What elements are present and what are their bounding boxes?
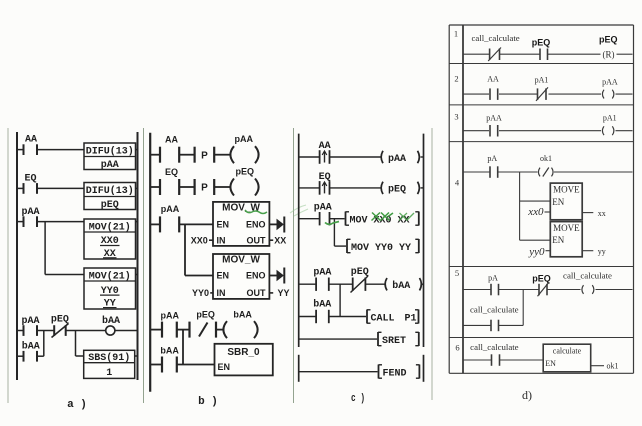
- svg-text:5: 5: [455, 268, 459, 278]
- svg-text:c ): c ): [351, 393, 365, 405]
- network separator 2-3: [449, 104, 633, 106]
- wire branch d rung4 to MOVE blocks: [520, 172, 551, 240]
- network separator 3-4: [449, 141, 633, 143]
- svg-text:XX: XX: [274, 235, 286, 245]
- pin xx output (d): [582, 209, 606, 218]
- pin yy output (d): [582, 247, 606, 256]
- wire rung2 b: [151, 186, 230, 188]
- wire branch b rung3 to second MOV_W: [185, 224, 213, 275]
- svg-text:yy0: yy0: [528, 246, 545, 258]
- svg-text:b ): b ): [198, 396, 218, 408]
- svg-text:pAA: pAA: [388, 154, 406, 165]
- green annotation tick under pAA contact (c): [325, 222, 339, 225]
- section divider line between b and c: [293, 128, 295, 403]
- wire rung2 a: [18, 187, 84, 189]
- function block MOV_W 1: [213, 202, 269, 246]
- section divider line between c and d: [431, 128, 433, 400]
- svg-text:call_calculate: call_calculate: [470, 343, 519, 352]
- left power rail (b): [149, 133, 151, 392]
- network separator 5-6: [449, 337, 633, 339]
- contact pEQ NC (c rung4): [351, 267, 369, 293]
- network separator 1-2: [449, 63, 633, 65]
- green annotation squiggle under MOV_W: [245, 210, 267, 214]
- svg-text:call_calculate: call_calculate: [472, 34, 521, 43]
- contact pEQ NC (b rung4): [190, 310, 217, 338]
- svg-text:pAA: pAA: [161, 204, 180, 214]
- instruction SRET (c): [378, 332, 419, 347]
- contact EQ (a): [24, 174, 38, 194]
- svg-text:pEQ: pEQ: [196, 310, 215, 320]
- wire branch c rung3 to MOV YY0: [334, 219, 346, 246]
- instruction MOV YY0 YY (c): [347, 239, 419, 254]
- wire parallel bAA branch b: [151, 364, 215, 366]
- svg-text:CALL: CALL: [371, 313, 395, 324]
- function block MOV(21) XX0 XX: [84, 219, 138, 260]
- pin OUT to YY (b): [269, 288, 289, 298]
- node junction c rung4: [339, 284, 341, 316]
- coil ok1 negated (d rung4): [538, 154, 553, 177]
- contact call_calculate (d rung6): [470, 343, 519, 366]
- coil bAA (c): [385, 278, 421, 292]
- coil pEQ reset (R) (d): [599, 35, 618, 60]
- wire rung4 b: [151, 329, 225, 331]
- svg-text:FEND: FEND: [383, 368, 407, 379]
- svg-text:SBR_0: SBR_0: [227, 347, 260, 358]
- wire rung6 d: [463, 359, 543, 361]
- section divider line between a and b: [143, 128, 145, 403]
- contact pAA (b rung4): [161, 311, 180, 338]
- svg-text:call_calculate: call_calculate: [470, 306, 519, 315]
- contact call_calculate (d rung5 parallel): [470, 306, 519, 332]
- svg-text:P1: P1: [405, 313, 417, 324]
- instruction CALL P1 (c): [367, 310, 419, 325]
- svg-text:ok1: ok1: [607, 362, 619, 371]
- network separator 4-5: [449, 266, 633, 268]
- svg-text:EN: EN: [217, 271, 230, 281]
- wire rung4 a: [18, 330, 138, 332]
- contact P edge (b rung2): [195, 179, 215, 195]
- svg-text:MOV XX0 XX: MOV XX0 XX: [350, 215, 410, 226]
- svg-text:MOVE: MOVE: [553, 223, 580, 233]
- coil bAA (b): [223, 310, 257, 339]
- contact pEQ (d rung1): [532, 38, 551, 61]
- svg-text:MOV_W: MOV_W: [222, 203, 260, 214]
- contact AA (d rung2): [487, 75, 499, 100]
- svg-text:OUT: OUT: [247, 288, 267, 298]
- wire SRET rung c: [300, 338, 378, 340]
- svg-text:yy: yy: [598, 247, 606, 256]
- svg-text:AA: AA: [487, 75, 499, 84]
- function block calculate (d): [543, 344, 591, 372]
- right power rail (a): [137, 132, 139, 380]
- svg-text:pEQ: pEQ: [101, 200, 119, 211]
- svg-text:pEQ: pEQ: [599, 35, 618, 45]
- green annotation strokes over XX: [399, 213, 414, 221]
- section divider line left of a: [7, 128, 9, 403]
- svg-text:EN: EN: [218, 362, 231, 372]
- wire ENO arrow (b block1): [269, 217, 284, 233]
- wire rung1 a: [18, 149, 84, 151]
- svg-text:a ): a ): [67, 399, 87, 411]
- left power rail (a): [16, 132, 18, 380]
- svg-text:SBS(91): SBS(91): [88, 352, 130, 364]
- contact pAA (b rung3): [160, 204, 180, 232]
- coil pAA (d rung2): [602, 78, 618, 99]
- svg-text:pAA: pAA: [101, 160, 119, 171]
- pin xx0 input (d): [527, 206, 550, 218]
- svg-text:ENO: ENO: [246, 220, 266, 230]
- contact bAA (a parallel): [22, 341, 40, 362]
- svg-text:EQ: EQ: [165, 167, 178, 177]
- wire FEND rung c: [300, 371, 378, 373]
- contact EQ rising pulse (c): [319, 172, 331, 195]
- wire rung2 c: [300, 187, 424, 189]
- wire rung2 d: [463, 93, 633, 95]
- contact pAA (d rung3): [486, 114, 502, 137]
- svg-text:pAA: pAA: [314, 203, 332, 214]
- svg-text:pEQ: pEQ: [351, 267, 369, 278]
- contact pA1 NC (d rung2): [535, 76, 549, 101]
- network frame (d): [449, 25, 633, 373]
- svg-text:pA1: pA1: [535, 76, 549, 85]
- svg-text:EN: EN: [552, 197, 564, 207]
- svg-text:pAA: pAA: [21, 207, 39, 218]
- coil bAA (a): [102, 315, 120, 335]
- svg-text:pA: pA: [487, 154, 497, 163]
- instruction FEND (c): [379, 365, 420, 380]
- wire parallel bAA branch c: [300, 316, 367, 318]
- svg-text:pAA: pAA: [21, 316, 39, 327]
- pin yy0 input (d): [528, 246, 550, 258]
- wire rung3 c: [300, 218, 345, 220]
- svg-text:DIFU(13): DIFU(13): [86, 185, 134, 197]
- svg-text:MOV_W: MOV_W: [222, 255, 260, 266]
- svg-text:AA: AA: [319, 141, 331, 152]
- function block DIFU(13) pAA: [84, 143, 138, 171]
- contact AA rising pulse (c): [319, 141, 331, 164]
- node junction b rung4: [182, 330, 184, 365]
- wire rung5 d: [463, 289, 633, 291]
- wire parallel bAA branch a: [18, 355, 44, 357]
- svg-text:ENO: ENO: [246, 271, 266, 281]
- wire parallel call_calculate branch d: [463, 324, 523, 326]
- contact bAA (b parallel): [160, 346, 179, 373]
- svg-text:P: P: [201, 183, 208, 194]
- right power rail (c): [423, 134, 425, 347]
- svg-text:d): d): [522, 388, 532, 402]
- svg-text:YY0: YY0: [192, 288, 209, 298]
- wire ENO arrow (b block2): [269, 268, 284, 284]
- pin YY0 to IN (b): [192, 288, 213, 298]
- svg-text:pA: pA: [488, 274, 498, 283]
- green annotation smudge near b/c boundary: [290, 205, 308, 216]
- svg-text:pAA: pAA: [235, 134, 254, 144]
- left power rail (c): [298, 134, 300, 347]
- node junction d rung5: [522, 290, 524, 326]
- wire rung1 b: [151, 154, 230, 156]
- wire rung3 b: [151, 223, 213, 225]
- svg-text:bAA: bAA: [160, 346, 179, 356]
- coil pEQ (c): [381, 182, 419, 196]
- contact pA (d rung4): [487, 154, 497, 178]
- function block MOVE 2 (d): [550, 222, 582, 257]
- svg-text:pEQ: pEQ: [388, 185, 406, 196]
- svg-text:bAA: bAA: [392, 280, 410, 292]
- coil pAA (c): [381, 151, 419, 165]
- svg-text:pAA: pAA: [313, 268, 331, 279]
- wire rung4 d: [463, 171, 633, 173]
- contact AA (a): [24, 135, 38, 156]
- instruction MOV XX0 XX (c): [346, 212, 419, 227]
- left power rail segment 2 (c): [298, 355, 300, 382]
- svg-text:XX0: XX0: [191, 235, 208, 245]
- pin ok1 output (d rung6): [591, 362, 619, 371]
- contact pAA (c rung4): [313, 268, 331, 291]
- contact pAA (a rung4): [21, 316, 39, 336]
- svg-text:ok1: ok1: [540, 154, 552, 163]
- svg-text:(R): (R): [603, 50, 615, 60]
- svg-text:bAA: bAA: [102, 315, 120, 327]
- svg-text:call_calculate: call_calculate: [563, 272, 613, 281]
- svg-text:pAA: pAA: [161, 311, 180, 321]
- svg-text:SRET: SRET: [382, 336, 406, 347]
- function block MOV(21) YY0 YY: [84, 268, 138, 310]
- contact call_calculate NC (d rung1): [472, 34, 521, 61]
- function block MOV_W 2: [213, 254, 269, 299]
- contact bAA (c parallel): [313, 299, 331, 324]
- wire branch a rung3 to second MOV: [45, 222, 84, 275]
- node junction a rung4 parallel: [43, 331, 45, 357]
- svg-text:pA1: pA1: [603, 114, 617, 123]
- svg-text:EQ: EQ: [24, 174, 36, 185]
- svg-text:IN: IN: [217, 235, 226, 245]
- function block DIFU(13) pEQ: [84, 183, 138, 211]
- function block MOVE 1 (d): [550, 183, 582, 220]
- svg-text:IN: IN: [217, 288, 226, 298]
- svg-text:pEQ: pEQ: [532, 38, 551, 48]
- svg-text:EN: EN: [545, 359, 556, 368]
- wire rung3 a: [18, 221, 84, 223]
- wire rung1 c: [300, 156, 424, 158]
- green annotation strokes over XX0: [372, 213, 394, 221]
- svg-text:pAA: pAA: [602, 78, 618, 87]
- contact EQ (b): [160, 167, 179, 195]
- contact P edge (b rung1): [195, 147, 215, 163]
- contact pAA (a): [21, 207, 39, 227]
- svg-text:AA: AA: [25, 135, 37, 146]
- svg-text:bAA: bAA: [313, 299, 331, 311]
- svg-text:P: P: [201, 150, 208, 161]
- contact pAA (c rung3): [314, 203, 332, 226]
- svg-text:2: 2: [454, 74, 458, 84]
- contact pEQ NC (d rung5): [532, 274, 551, 297]
- svg-text:bAA: bAA: [233, 310, 252, 320]
- svg-text:YY: YY: [278, 288, 290, 298]
- svg-text:pEQ: pEQ: [532, 274, 551, 284]
- contact AA (b): [160, 135, 179, 163]
- svg-text:EN: EN: [552, 235, 564, 245]
- svg-text:xx: xx: [598, 209, 606, 218]
- right power rail segment 2 (c): [423, 355, 425, 382]
- coil pA1 (d rung3): [602, 114, 616, 136]
- wire branch to SBS: [76, 331, 84, 357]
- svg-text:pEQ: pEQ: [236, 166, 255, 176]
- contact pA (d rung5): [488, 274, 498, 296]
- left power rail (d): [462, 25, 464, 373]
- pin OUT to XX (b): [269, 235, 286, 245]
- svg-text:calculate: calculate: [553, 347, 582, 356]
- svg-text:1: 1: [454, 29, 458, 39]
- svg-text:OUT: OUT: [247, 235, 267, 245]
- wire rung4 c: [300, 283, 424, 285]
- function block SBS(91) 1: [84, 350, 138, 379]
- svg-text:pEQ: pEQ: [51, 315, 69, 326]
- svg-text:MOVE: MOVE: [553, 185, 580, 195]
- svg-text:pAA: pAA: [486, 114, 502, 123]
- coil pAA (b): [230, 134, 258, 163]
- svg-text:xx0: xx0: [527, 206, 544, 218]
- svg-text:MOV YY0 YY: MOV YY0 YY: [351, 243, 411, 254]
- pin XX0 to IN (b): [191, 235, 213, 245]
- svg-text:DIFU(13): DIFU(13): [86, 146, 134, 158]
- svg-text:6: 6: [455, 343, 459, 353]
- wire rung1 d: [463, 53, 633, 55]
- contact pEQ NC (a rung4): [51, 315, 69, 338]
- svg-text:3: 3: [454, 112, 458, 122]
- svg-text:EN: EN: [217, 220, 230, 230]
- wire rung3 d: [463, 130, 633, 132]
- coil call_calculate (d rung5): [563, 272, 613, 294]
- coil pEQ (b): [230, 166, 258, 195]
- function block SBR_0: [215, 344, 273, 376]
- svg-text:bAA: bAA: [22, 341, 40, 353]
- svg-text:AA: AA: [165, 135, 178, 145]
- svg-text:MOV(21): MOV(21): [89, 270, 131, 282]
- svg-text:MOV(21): MOV(21): [89, 221, 131, 233]
- svg-text:1: 1: [106, 368, 112, 379]
- svg-text:EQ: EQ: [319, 172, 331, 183]
